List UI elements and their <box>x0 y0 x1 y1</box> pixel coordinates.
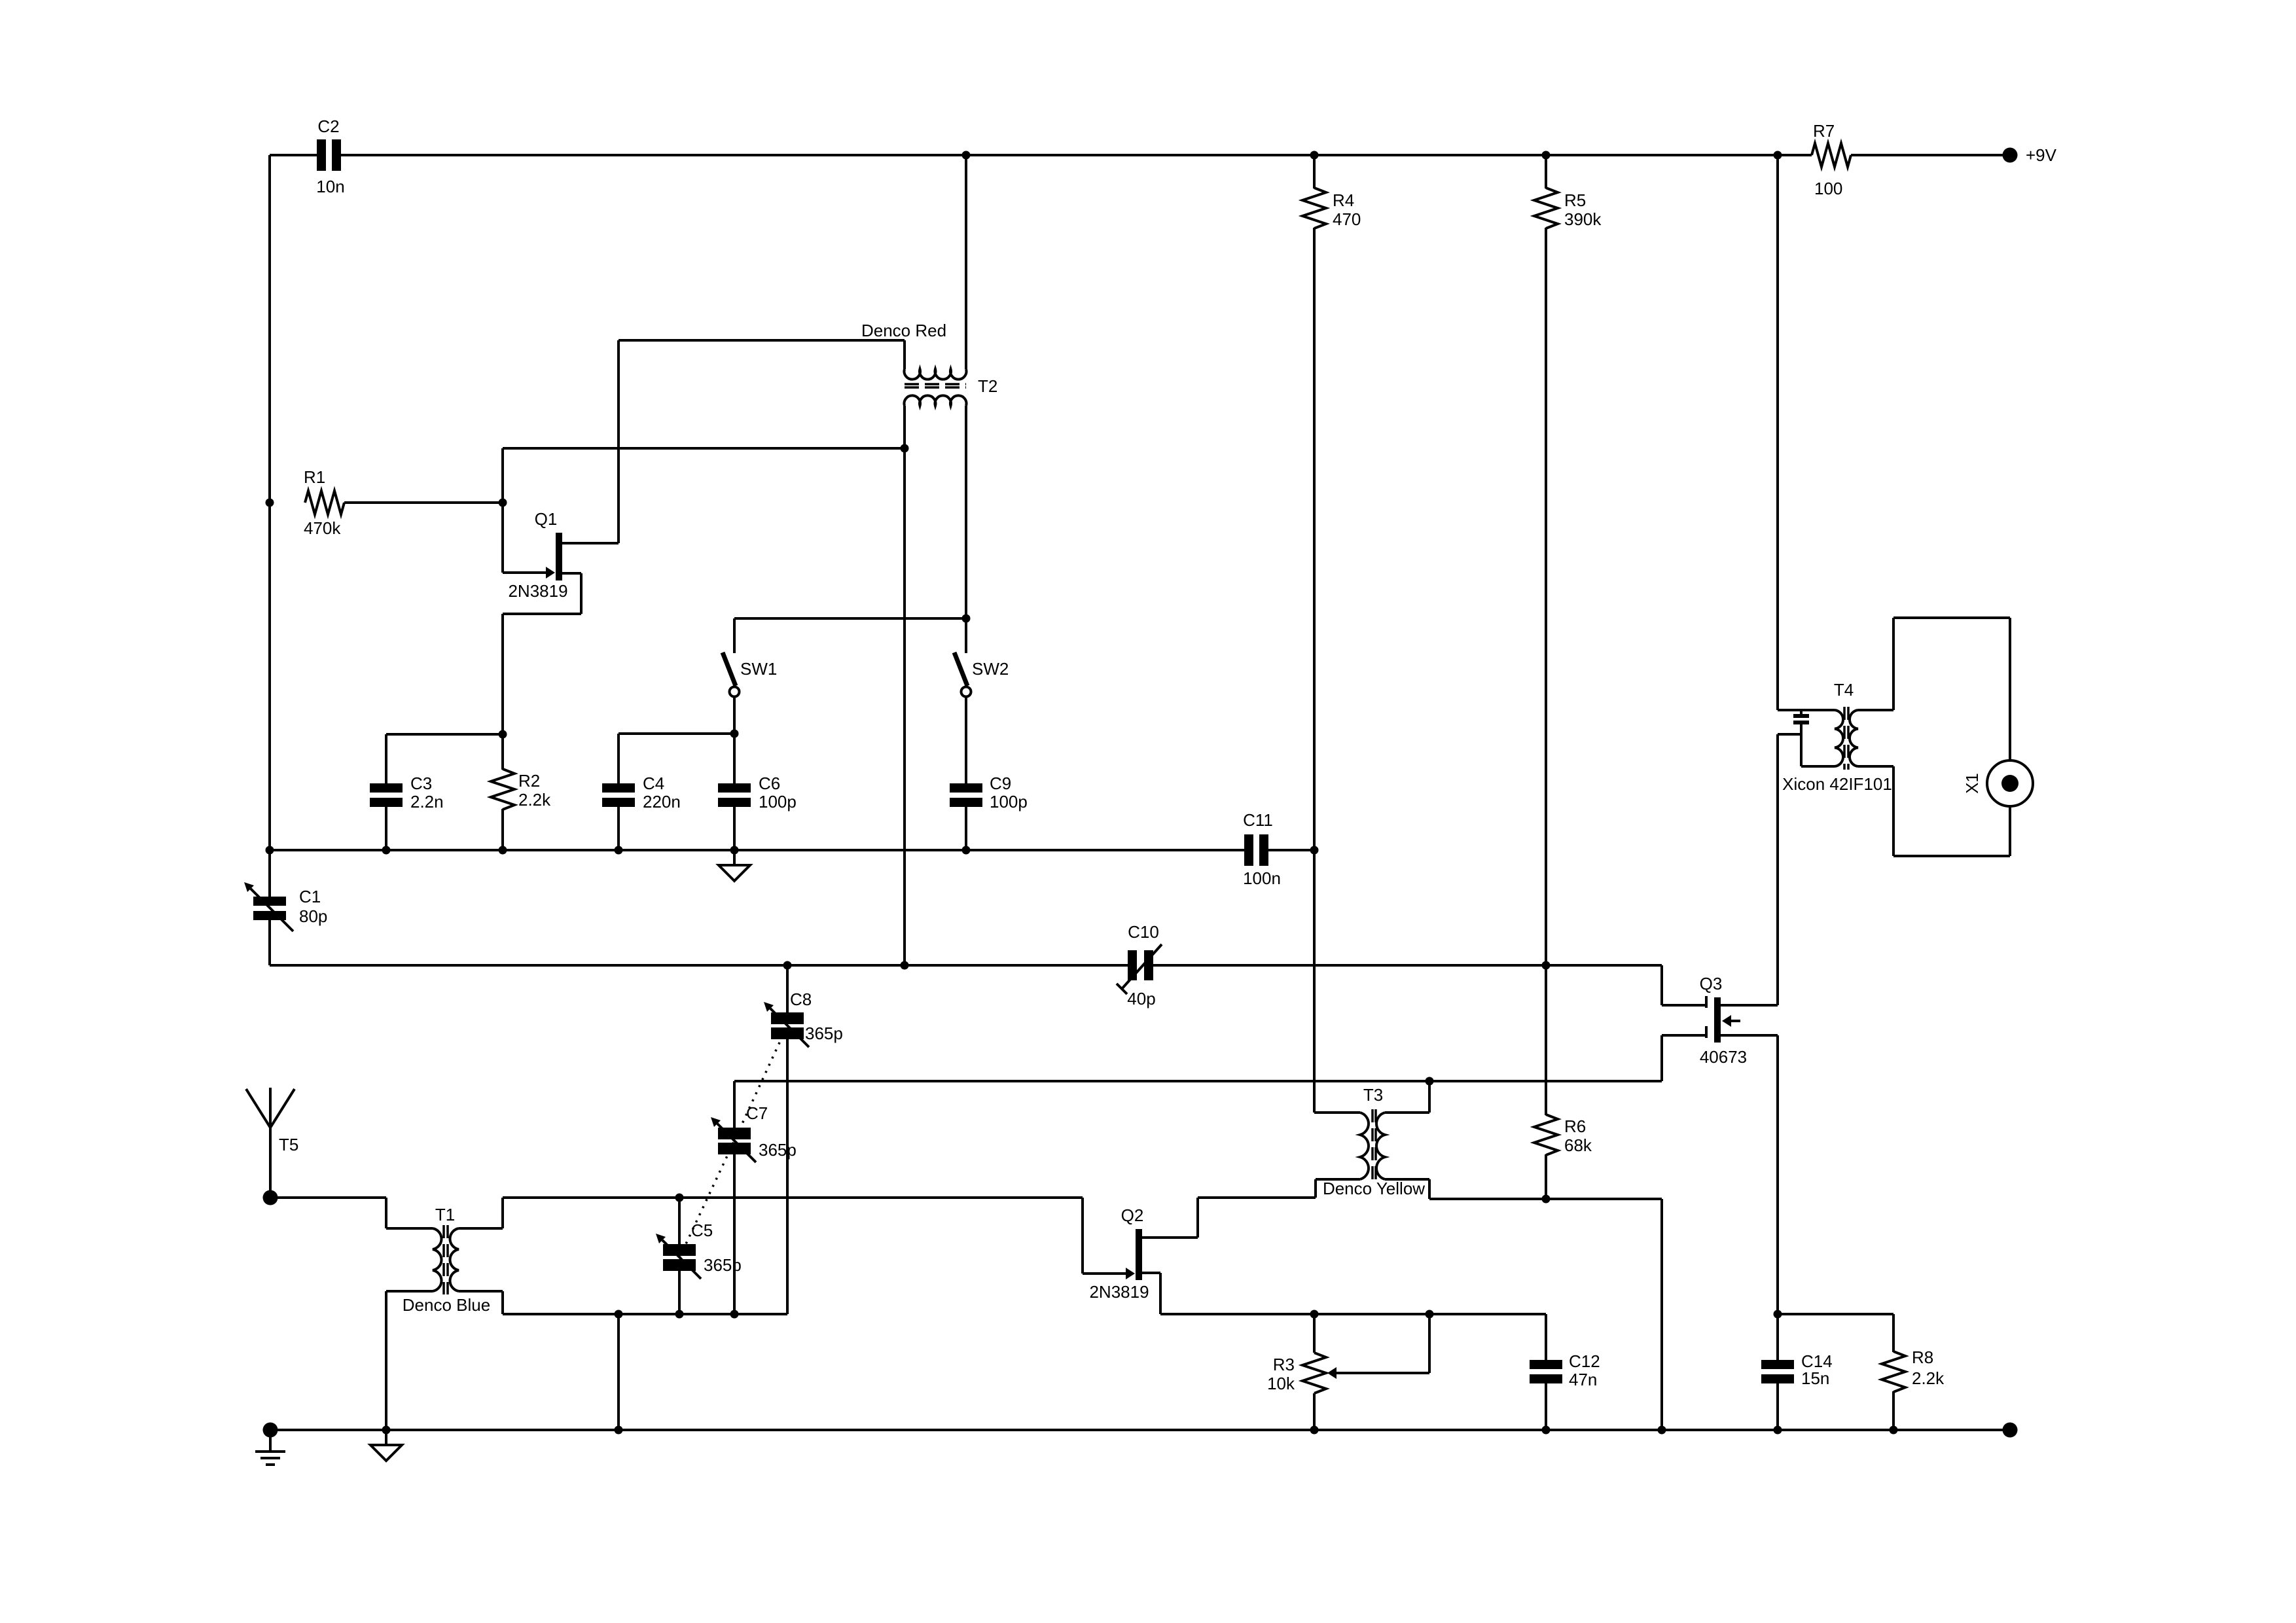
wire Q1 gate column <box>501 448 504 573</box>
node C5 top junction <box>675 1194 684 1202</box>
svg-text:X1: X1 <box>1962 773 1982 794</box>
transformer T2 bottom winding <box>905 395 967 406</box>
resistor R5 <box>1534 155 1602 965</box>
capacitor C12 <box>1530 1314 1600 1389</box>
node R1 left junction <box>266 499 274 507</box>
svg-text:2.2k: 2.2k <box>518 790 551 810</box>
transformer T4 primary winding <box>1835 710 1843 766</box>
svg-text:100n: 100n <box>1243 868 1281 888</box>
svg-text:68k: 68k <box>1564 1135 1592 1155</box>
wire R4 column lower <box>1313 850 1316 1113</box>
node T2-top junction <box>962 151 971 160</box>
node R3 top junction <box>1310 1310 1319 1319</box>
node C5 bottom junction <box>675 1310 684 1319</box>
wire Q2 gate drop <box>1083 1198 1126 1274</box>
svg-text:R2: R2 <box>518 771 540 791</box>
node C14 ground junction <box>1774 1426 1782 1435</box>
capacitor T4 internal trimmer <box>1793 710 1809 734</box>
svg-text:C3: C3 <box>410 774 432 793</box>
label Denco Red <box>861 321 946 340</box>
node 2008-row ground-link junction <box>615 1310 623 1319</box>
node C3 mid-rail junction <box>382 846 391 855</box>
wire antenna to T1 <box>270 1198 433 1228</box>
svg-text:R1: R1 <box>304 467 325 487</box>
transformer T2 core <box>905 384 966 387</box>
svg-text:C1: C1 <box>299 887 321 906</box>
wire C12 bottom stub <box>1545 1381 1547 1430</box>
capacitor C14 <box>1761 1314 1833 1388</box>
wire left rail vertical <box>268 155 271 850</box>
node C8 top junction <box>783 961 792 970</box>
wire C6 bottom stub <box>733 806 736 850</box>
transformer T1 core <box>444 1225 448 1294</box>
capacitor C2 <box>316 116 344 196</box>
resistor R7 <box>1812 121 1851 198</box>
node +9V terminal <box>2003 148 2018 163</box>
capacitor C1 variable <box>244 882 327 931</box>
svg-text:R4: R4 <box>1333 190 1354 210</box>
wire 1652 row <box>734 1080 1662 1082</box>
ground chassis triangle at T1 <box>370 1430 402 1461</box>
node R7/T4 junction <box>1774 151 1782 160</box>
wire Q3 gate2 drop <box>1662 1035 1705 1081</box>
svg-text:R8: R8 <box>1912 1347 1933 1367</box>
wire Q1 source column <box>501 614 504 734</box>
ground earth symbol <box>255 1430 285 1465</box>
svg-text:R5: R5 <box>1564 190 1586 210</box>
node antenna terminal <box>263 1190 278 1205</box>
svg-text:2.2k: 2.2k <box>1912 1368 1945 1388</box>
node C6 mid-rail junction <box>730 846 739 855</box>
wire Q1 drain riser <box>617 340 620 543</box>
wire C7 bottom column <box>733 1154 736 1314</box>
wire 1475 row right <box>1153 964 1662 967</box>
wire top rail right segment <box>1851 154 2010 156</box>
wire Q2 drain to T3 <box>1198 1179 1360 1238</box>
svg-text:C12: C12 <box>1569 1351 1600 1371</box>
capacitor C3 <box>370 774 444 811</box>
node C9 mid-rail junction <box>962 846 971 855</box>
svg-text:C10: C10 <box>1128 922 1159 942</box>
svg-text:2N3819: 2N3819 <box>1089 1282 1149 1302</box>
antenna T5 <box>246 1088 298 1198</box>
label T3 <box>1363 1085 1383 1105</box>
node gate2-net ground junction <box>1658 1426 1666 1435</box>
wire R1 to Q1 gate node <box>344 501 503 504</box>
node ground terminal right <box>2003 1423 2018 1438</box>
svg-text:C6: C6 <box>759 774 780 793</box>
transistor Q3 40673 <box>1700 974 1778 1067</box>
svg-text:100: 100 <box>1814 179 1842 198</box>
svg-text:40673: 40673 <box>1700 1047 1747 1067</box>
node SW2 top junction <box>962 615 971 623</box>
wire C1 top stub <box>268 850 271 897</box>
svg-text:Xicon 42IF101: Xicon 42IF101 <box>1782 774 1892 794</box>
wire top rail left segment <box>270 154 317 156</box>
svg-text:220n: 220n <box>643 792 681 811</box>
transformer T4 core <box>1844 707 1848 770</box>
svg-text:C8: C8 <box>790 990 812 1009</box>
svg-text:T3: T3 <box>1363 1085 1383 1105</box>
node C4 mid-rail junction <box>615 846 623 855</box>
wire C14 to R8 row <box>1778 1313 1893 1315</box>
wire C9 bottom stub <box>965 806 967 850</box>
svg-text:SW1: SW1 <box>740 659 777 679</box>
wire C3 top link <box>386 734 503 783</box>
wire T1 secondary top to gate row <box>459 1198 1083 1228</box>
capacitor C5 variable <box>656 1198 742 1279</box>
node C7 bottom junction <box>730 1310 739 1319</box>
wire T4 primary bottom node <box>1778 733 1801 736</box>
wire C1 bottom stub <box>268 919 271 965</box>
wire Q3 drain riser <box>1776 734 1779 1005</box>
transformer T3 primary winding <box>1360 1113 1369 1179</box>
wire C8 bottom column <box>786 1039 789 1314</box>
wire top rail main segment <box>341 154 1812 156</box>
transistor Q1 2N3819 <box>503 509 619 614</box>
wire T2 right column upper <box>965 155 967 369</box>
switch SW1 <box>723 618 777 734</box>
svg-text:C4: C4 <box>643 774 664 793</box>
svg-text:T5: T5 <box>279 1135 298 1154</box>
transformer T3 core <box>1372 1109 1376 1183</box>
node R3 ground junction <box>1310 1426 1319 1435</box>
svg-text:+9V: +9V <box>2026 145 2057 165</box>
wire T1 primary bottom to ground <box>386 1291 433 1430</box>
svg-text:Q2: Q2 <box>1121 1205 1144 1225</box>
label Xicon 42IF101 <box>1782 774 1892 794</box>
svg-text:T4: T4 <box>1834 680 1854 700</box>
node C12 ground junction <box>1542 1426 1551 1435</box>
svg-text:C11: C11 <box>1243 810 1273 830</box>
transformer T2 top winding <box>905 369 967 380</box>
svg-text:C7: C7 <box>746 1103 768 1123</box>
node T3 secondary top junction <box>1426 1077 1434 1086</box>
wire T1 secondary bottom <box>459 1291 787 1314</box>
svg-text:R3: R3 <box>1273 1355 1295 1374</box>
wire 1475 row left <box>270 964 1128 967</box>
label +9V <box>2026 145 2057 165</box>
transformer T3 secondary winding <box>1376 1113 1385 1179</box>
resistor R3 potentiometer <box>1267 1314 1429 1430</box>
node R2 mid-rail junction <box>499 846 507 855</box>
resistor R2 <box>491 734 551 850</box>
svg-text:Denco Yellow: Denco Yellow <box>1323 1179 1425 1198</box>
svg-text:47n: 47n <box>1569 1370 1597 1389</box>
svg-text:100p: 100p <box>759 792 797 811</box>
node R5 top junction <box>1542 151 1551 160</box>
svg-text:Denco Red: Denco Red <box>861 321 946 340</box>
switch SW2 <box>954 618 1009 783</box>
svg-text:R7: R7 <box>1813 121 1835 141</box>
label Denco Yellow <box>1323 1179 1425 1198</box>
svg-text:Denco Blue: Denco Blue <box>403 1295 490 1315</box>
svg-text:SW2: SW2 <box>972 659 1009 679</box>
wire C4 bottom stub <box>617 806 620 850</box>
node R4 mid junction <box>1310 846 1319 855</box>
svg-text:R6: R6 <box>1564 1116 1586 1136</box>
wire Q2 source row <box>1160 1313 1546 1315</box>
capacitor C6 <box>718 734 797 811</box>
wire Q3 gate1 drop <box>1662 965 1705 1005</box>
wire C3 bottom stub <box>385 806 387 850</box>
capacitor C7 variable <box>711 1081 797 1162</box>
resistor R1 <box>304 467 344 538</box>
node R5/R6 gate1 junction <box>1542 961 1551 970</box>
node R3 wiper junction <box>1426 1310 1434 1319</box>
svg-text:390k: 390k <box>1564 209 1602 229</box>
wire Q3 source column <box>1776 1035 1779 1314</box>
wire mid rail <box>270 849 1244 851</box>
svg-text:15n: 15n <box>1801 1368 1829 1388</box>
node ground terminal left <box>263 1423 278 1438</box>
node R4 top junction <box>1310 151 1319 160</box>
capacitor C4 <box>602 774 681 811</box>
svg-text:10k: 10k <box>1267 1374 1295 1393</box>
wire T3 secondary bottom link <box>1385 1179 1662 1199</box>
label T4 <box>1834 680 1854 700</box>
wire ground rail <box>270 1429 2010 1431</box>
svg-text:40p: 40p <box>1127 989 1155 1008</box>
label T2 <box>978 376 997 396</box>
node R6 bottom junction <box>1542 1195 1551 1204</box>
wire R7 junction to T4 <box>1778 155 1835 710</box>
svg-text:2.2n: 2.2n <box>410 792 444 811</box>
wire gate2-net ground drop <box>1660 1199 1663 1430</box>
svg-text:C5: C5 <box>691 1221 713 1240</box>
svg-text:470k: 470k <box>304 518 341 538</box>
capacitor C11 <box>1243 810 1281 888</box>
svg-text:Q1: Q1 <box>535 509 558 529</box>
svg-text:365p: 365p <box>704 1255 742 1275</box>
node SW1 / C6 junction <box>730 730 739 738</box>
wire C5 bottom stub <box>678 1271 681 1314</box>
ground chassis triangle at C6 <box>719 850 750 881</box>
resistor R6 <box>1534 965 1592 1199</box>
capacitor C9 <box>950 774 1028 811</box>
svg-text:470: 470 <box>1333 209 1361 229</box>
node T1 ground junction <box>382 1426 391 1435</box>
node mid-rail left junction <box>266 846 274 855</box>
label T1 <box>435 1205 455 1224</box>
node x945 ground junction <box>615 1426 623 1435</box>
wire T4 primary top stub <box>1833 709 1836 711</box>
gang dotted line C5-C7-C8 <box>679 1026 787 1258</box>
wire Q1 drain to T2 <box>619 339 905 342</box>
transistor Q2 2N3819 <box>1089 1205 1198 1314</box>
node R8 ground junction <box>1890 1426 1898 1435</box>
wire C11 to R4 column <box>1268 849 1314 851</box>
transformer T4 secondary winding <box>1850 710 1858 766</box>
wire C4 top link <box>619 734 734 783</box>
svg-text:100p: 100p <box>990 792 1028 811</box>
wire T4 primary bottom link <box>1801 734 1835 766</box>
node C14 top junction <box>1774 1310 1782 1319</box>
wire T4 secondary bottom loop <box>1858 766 2010 856</box>
svg-text:Q3: Q3 <box>1700 974 1723 993</box>
wire T2 primary top stub <box>903 340 906 369</box>
svg-text:365p: 365p <box>805 1024 843 1043</box>
node Q1 gate junction <box>499 499 507 507</box>
wire T3 primary top link <box>1314 1111 1360 1114</box>
wire T2 left column <box>903 406 906 965</box>
svg-text:365p: 365p <box>759 1140 797 1160</box>
node T2-column bottom junction <box>901 961 909 970</box>
wire T3 secondary top link <box>1385 1081 1429 1113</box>
capacitor C8 variable <box>764 965 843 1047</box>
resistor R4 <box>1302 155 1361 850</box>
svg-text:80p: 80p <box>299 906 327 926</box>
transformer T1 secondary winding <box>450 1228 459 1291</box>
resistor R8 <box>1882 1314 1945 1430</box>
svg-text:10n: 10n <box>316 177 344 196</box>
wire SW row horizontal <box>734 617 966 620</box>
svg-text:C9: C9 <box>990 774 1011 793</box>
label Denco Blue <box>403 1295 490 1315</box>
svg-text:2N3819: 2N3819 <box>508 581 567 601</box>
node T2 bottom-left junction <box>901 444 909 453</box>
svg-text:C2: C2 <box>317 116 339 136</box>
wire T4 secondary top loop <box>1858 618 2010 760</box>
transformer T1 primary winding <box>433 1228 442 1291</box>
node Q1 source / R2 / C3 junction <box>499 730 507 739</box>
wire feedback top horizontal <box>503 447 905 450</box>
connector X1 <box>1962 760 2033 806</box>
wire ground link x945 <box>617 1314 620 1430</box>
svg-text:T1: T1 <box>435 1205 455 1224</box>
svg-text:T2: T2 <box>978 376 997 396</box>
wire T2 right column lower <box>965 406 967 618</box>
wire C14 bottom stub <box>1776 1381 1779 1430</box>
capacitor C10 trimmer <box>1117 922 1162 1008</box>
